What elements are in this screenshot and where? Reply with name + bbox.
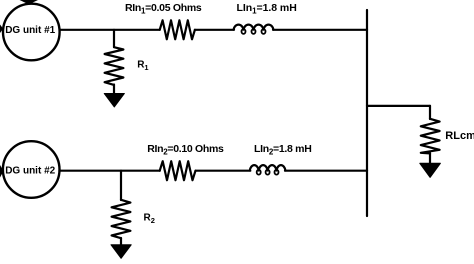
- svg-text:RLcmd: RLcmd: [445, 130, 474, 142]
- svg-text:LIn2=1.8 mH: LIn2=1.8 mH: [254, 143, 311, 156]
- svg-text:LIn1=1.8 mH: LIn1=1.8 mH: [237, 2, 297, 15]
- svg-text:DG unit #1: DG unit #1: [5, 25, 55, 36]
- svg-text:DG unit #2: DG unit #2: [5, 166, 55, 177]
- svg-text:RIn2=0.10 Ohms: RIn2=0.10 Ohms: [147, 143, 224, 156]
- svg-text:RIn1=0.05 Ohms: RIn1=0.05 Ohms: [125, 2, 202, 15]
